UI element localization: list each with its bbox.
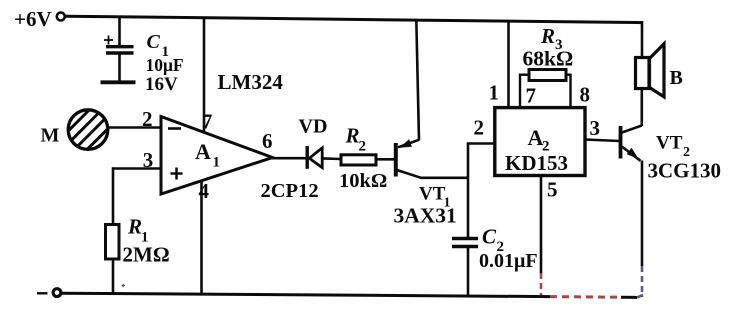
svg-text:7: 7 [526,84,537,108]
wire pin7 to R3 [519,74,530,108]
resistor R3 [529,70,566,81]
value label C1 [145,31,184,95]
wire R1 to bottom rail [112,258,115,295]
wire VT1 collector to node [420,177,469,180]
svg-text:0.01μF: 0.01μF [479,250,538,272]
wire mic to pin2 [109,126,162,129]
IC A2 KD153 [495,108,585,176]
wire top +6V rail [65,16,642,22]
svg-text:10μF: 10μF [146,55,184,75]
microphone M [68,110,108,150]
wire R3 to pin8 [566,74,572,108]
wire pin7 to rail [203,17,206,133]
value label C2 [479,225,538,273]
svg-text:68kΩ: 68kΩ [523,47,574,71]
value label R1 2M [123,215,170,267]
value label R3 68k [523,24,574,71]
svg-text:R: R [127,215,142,239]
svg-text:5: 5 [547,178,558,202]
svg-text:A: A [195,139,211,164]
capacitor C2 [452,239,478,247]
svg-text:2: 2 [359,139,367,155]
svg-text:R: R [540,24,555,48]
transistor VT2 [621,126,642,161]
label VT1 [419,184,451,211]
wire pin4 to bottom rail [200,180,203,295]
svg-text:VT: VT [419,184,446,205]
wire VT1 emitter to rail [416,20,419,141]
svg-text:3: 3 [143,148,154,172]
svg-text:KD153: KD153 [505,151,568,175]
svg-text:M: M [41,125,60,147]
wire VT2 collector to speaker [640,89,643,127]
wire node to C2 [467,144,470,238]
svg-text:1: 1 [213,155,221,171]
svg-text:10kΩ: 10kΩ [339,170,387,192]
svg-text:B: B [670,67,683,89]
terminal +6V [57,13,65,21]
svg-text:2: 2 [142,107,153,131]
wire diode to R2 [322,157,342,160]
svg-text:2CP12: 2CP12 [261,180,319,202]
wire C1 top lead [118,16,121,46]
label VT2 [656,133,690,161]
wire pin1 to rail [507,21,510,107]
capacitor C1 [101,36,136,83]
svg-text:4: 4 [199,179,210,203]
scan speck [122,284,126,287]
diode VD [307,146,322,169]
svg-text:2MΩ: 2MΩ [123,243,170,267]
svg-text:+6V: +6V [14,7,52,31]
resistor R1 [106,225,120,260]
svg-text:LM324: LM324 [218,70,284,94]
wire C2 to bottom rail [467,248,470,296]
wire rail to speaker [641,21,644,58]
svg-text:7: 7 [202,110,213,134]
wire pin5 to bottom rail [540,176,543,297]
svg-text:16V: 16V [145,74,178,95]
wire VT2 emitter to bottom rail [641,161,644,298]
terminal minus [37,289,61,297]
wire R2 to VT1 base [376,158,395,161]
op-amp A1 [161,117,273,195]
svg-text:C: C [147,31,161,53]
wire pin3 to VT2 base [585,140,620,142]
svg-text:8: 8 [580,83,591,107]
wire pin3 input [113,167,161,226]
speaker B [636,44,665,97]
svg-text:6: 6 [262,129,273,153]
transistor VT1 [396,139,421,178]
svg-text:3AX31: 3AX31 [394,204,457,228]
wire bottom rail [60,293,643,297]
resistor R2 [341,155,376,165]
svg-text:1: 1 [489,81,500,105]
wire node to pin2 of A2 [467,142,495,145]
svg-text:3: 3 [590,116,601,140]
svg-text:3CG130: 3CG130 [648,159,722,183]
svg-text:C: C [482,225,497,249]
value label R2 10k [339,124,387,193]
wire op-amp output [271,157,307,160]
svg-text:R: R [345,124,360,148]
svg-text:VD: VD [299,116,328,138]
svg-text:2: 2 [474,116,485,140]
svg-text:VT: VT [656,133,683,154]
